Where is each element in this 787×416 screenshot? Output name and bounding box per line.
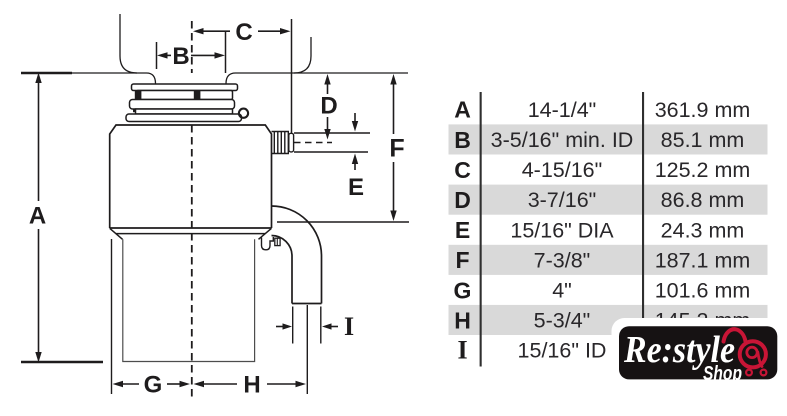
table inch values (491, 98, 634, 363)
logo @ outer ring (740, 341, 766, 367)
logo @ inner ring (747, 347, 757, 357)
dimension B arrowheads (157, 52, 168, 58)
table divider 2 (642, 92, 644, 367)
svg-text:F: F (389, 135, 404, 163)
svg-text:7-3/8": 7-3/8" (534, 248, 591, 272)
dimension D down arrow (327, 117, 329, 135)
svg-text:B: B (172, 43, 189, 70)
svg-text:H: H (454, 307, 471, 333)
discharge elbow inner wall (272, 236, 293, 304)
svg-text:361.9 mm: 361.9 mm (655, 98, 751, 122)
logo cart handle (724, 329, 746, 341)
svg-text:E: E (455, 217, 470, 243)
pipe wall extension left (292, 307, 294, 344)
dimension F bottom extension line (277, 221, 409, 223)
body bottom shelf (110, 227, 272, 229)
dimension A arrowheads (35, 73, 41, 84)
dimension A line (38, 76, 40, 359)
table gray row B (449, 124, 768, 154)
svg-text:B: B (454, 127, 471, 153)
svg-text:I: I (457, 336, 467, 365)
dimension C extension line (291, 19, 293, 133)
mount band 4 (lower mounting ring) (136, 109, 233, 114)
svg-text:H: H (243, 372, 260, 399)
svg-text:86.8 mm: 86.8 mm (661, 188, 745, 212)
dimension D up arrow (327, 78, 329, 94)
svg-text:101.6 mm: 101.6 mm (655, 279, 751, 303)
svg-text:Shop: Shop (703, 362, 742, 385)
dimension B line (165, 54, 217, 56)
sink bowl right wall (294, 37, 311, 73)
dimension H arrowheads (194, 381, 205, 387)
logo cart wheel right (761, 370, 767, 376)
svg-text:D: D (454, 187, 471, 213)
svg-text:C: C (235, 19, 252, 46)
dimension C line (201, 30, 282, 32)
table gray row H (449, 305, 768, 335)
logo black box (619, 326, 777, 379)
svg-text:125.2 mm: 125.2 mm (655, 158, 751, 182)
svg-text:I: I (344, 312, 354, 341)
dimension H line (202, 383, 297, 385)
svg-text:15/16" DIA: 15/16" DIA (510, 218, 614, 242)
dimension E up arrow (354, 158, 356, 170)
dimension C arrowheads (193, 28, 204, 34)
body bottom taper right (259, 228, 272, 239)
dimension G arrowheads (113, 381, 124, 387)
svg-text:G: G (144, 372, 163, 399)
svg-text:A: A (29, 203, 46, 230)
svg-text:A: A (454, 97, 471, 123)
dimension I left arrow (276, 326, 283, 328)
dimension E down arrow (354, 113, 356, 127)
lower canister (123, 239, 255, 361)
svg-text:4": 4" (552, 279, 572, 303)
table gray row D (449, 185, 768, 215)
dimension F line (393, 77, 395, 217)
dimension A extension tick bottom (21, 361, 103, 363)
body bottom taper mid line (116, 233, 265, 235)
clip latch square (275, 238, 280, 245)
nipple top extension line (294, 132, 370, 134)
table mm values (655, 98, 751, 363)
table divider 1 (480, 92, 482, 367)
svg-text:F: F (455, 247, 469, 273)
logo cart wheel left (746, 370, 752, 376)
svg-text:14-1/4": 14-1/4" (528, 98, 597, 122)
dimension F arrowheads (390, 74, 396, 85)
nipple dashed centerline (294, 142, 332, 144)
dimension G line (121, 383, 182, 385)
mount band 1 (upper support ring) (132, 84, 238, 91)
svg-text:E: E (348, 174, 364, 201)
pull ring (239, 109, 248, 118)
nipple bottom extension line (294, 151, 368, 153)
svg-text:C: C (454, 157, 471, 183)
clip latch inner line (276, 238, 278, 245)
svg-text:187.1 mm: 187.1 mm (655, 248, 751, 272)
pipe centerline extension for H (306, 305, 308, 394)
pipe end line (292, 303, 322, 305)
sink bowl left wall (120, 14, 137, 73)
screw nut right (195, 109, 202, 112)
logo white halo (612, 318, 785, 386)
dimension B extension ticks (156, 42, 158, 69)
svg-text:4-15/16": 4-15/16" (522, 158, 603, 182)
pipe wall extension right (320, 307, 322, 344)
mount band 5 (swivel collar) (126, 114, 242, 122)
mount screw right (194, 91, 201, 101)
mount screw left (135, 91, 142, 101)
disposer body (110, 125, 272, 228)
svg-text:G: G (454, 277, 472, 303)
dishwasher inlet nipple (272, 132, 290, 154)
svg-text:85.1 mm: 85.1 mm (661, 128, 745, 152)
discharge elbow outer wall (272, 206, 322, 304)
mount band 2 (137, 91, 233, 100)
body bottom taper left (110, 228, 123, 239)
svg-text:15/16" ID: 15/16" ID (518, 339, 607, 363)
dashed vertical centerline (191, 21, 193, 399)
svg-text:3-5/16" min. ID: 3-5/16" min. ID (491, 128, 634, 152)
nipple end cap (289, 133, 294, 152)
dimension A extension tick top (21, 72, 72, 74)
svg-text:D: D (320, 93, 337, 120)
svg-text:5-3/4": 5-3/4" (534, 309, 591, 333)
svg-text:3-7/16": 3-7/16" (528, 188, 597, 212)
table letters (454, 97, 472, 365)
sink counter line (21, 73, 408, 84)
dimension G extension line (111, 239, 113, 394)
svg-text:24.3 mm: 24.3 mm (661, 218, 745, 242)
logo @ stem (758, 352, 762, 367)
mount band 3 (support ring) (130, 100, 235, 110)
table gray row F (449, 245, 768, 275)
mounting clip hook (262, 237, 274, 250)
dimension I right arrow (331, 326, 338, 328)
screw nut left (133, 109, 140, 112)
